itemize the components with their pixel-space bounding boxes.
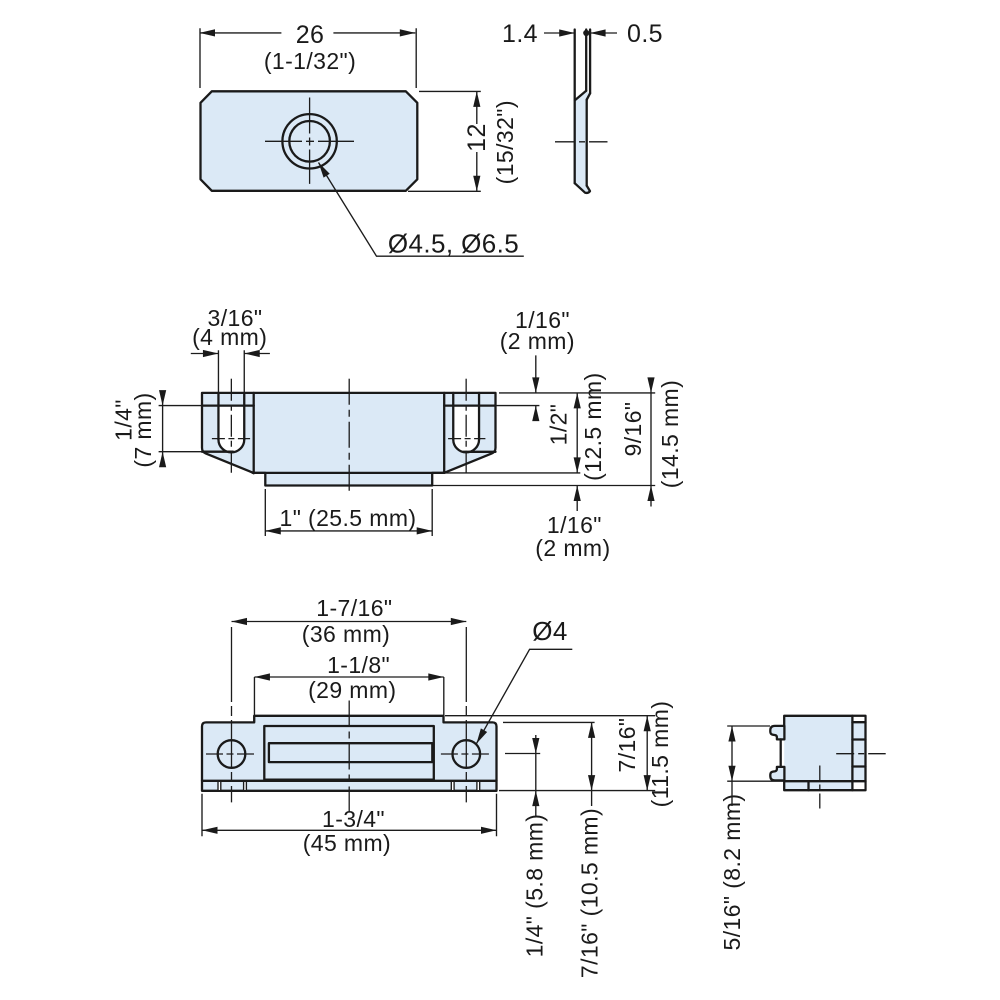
svg-text:(1-1/32"): (1-1/32") [264,48,356,74]
svg-text:5/16" (8.2 mm): 5/16" (8.2 mm) [719,794,745,951]
tab connector edge [780,739,782,767]
hole inner circle Ø4.5 [289,121,330,162]
dim 9/16 line [650,378,652,507]
left slot edge lines [218,393,244,440]
dim 8.2 mm line [731,726,733,806]
svg-text:1-7/16": 1-7/16" [316,595,392,621]
svg-text:(2 mm): (2 mm) [500,328,575,354]
svg-text:(29 mm): (29 mm) [308,677,396,703]
right slot cutout [453,407,479,453]
svg-text:(36 mm): (36 mm) [302,621,390,647]
strip corner cell bottom [854,782,865,789]
left edge line [574,30,576,184]
svg-text:12: 12 [463,123,491,152]
dim 0.5 arrow [590,29,606,36]
svg-text:1-3/4": 1-3/4" [322,806,385,832]
bend line lower [587,93,590,99]
dim 1/2 arrows [574,393,581,409]
dim 1/16 top arrows [532,377,539,393]
foot slit left 1 [219,782,221,790]
middle edge line [585,30,587,91]
svg-text:(4 mm): (4 mm) [192,324,267,350]
dim 36 mm arrows [232,618,248,625]
dim 11.5 mm arrows [644,716,651,732]
svg-text:(2 mm): (2 mm) [535,535,610,561]
dim 45 mm line [202,829,497,831]
profile fill [575,91,590,192]
wing step line left [202,404,254,406]
hole right vertical centerline [465,627,467,802]
central centerline [348,379,350,496]
front face strip [851,716,853,790]
body outline [202,716,497,791]
extension line step right [496,405,540,407]
body outline [784,716,865,790]
dim 9/16 arrows [647,377,654,393]
separation line left [253,393,255,473]
dim 3/16 line right [244,353,270,355]
dim 1 inch line [265,530,432,532]
dim 12 arrows [473,91,480,107]
strip division lines [852,722,865,781]
dim 12 extension lines [408,91,481,191]
right edge line [589,30,591,94]
foot slit right 2 [478,782,480,790]
lower right edge [586,100,588,186]
bottom strip divider [807,781,809,790]
dim 45 mm arrows [202,827,218,834]
horizontal centerline [836,753,886,755]
svg-text:1-1/8": 1-1/8" [327,652,390,678]
magnet housing rect [264,726,434,780]
dim 10.5 mm arrows [588,722,595,738]
foot slit left 2 [244,782,246,790]
svg-text:9/16": 9/16" [620,402,646,457]
top mounting tab [770,726,784,740]
hole left horizontal centerline [206,753,258,755]
left slot cutout [218,407,244,453]
body outline [202,393,496,486]
dim 36 mm line [232,621,467,623]
foot [575,183,590,193]
svg-text:Ø4.5, Ø6.5: Ø4.5, Ø6.5 [388,229,519,259]
plate body [201,91,418,191]
bend line upper [575,91,586,100]
magnet flange top line [253,472,445,474]
hole right horizontal centerline [441,753,492,755]
svg-text:(45 mm): (45 mm) [303,830,391,856]
svg-text:1/4" (5.8 mm): 1/4" (5.8 mm) [522,814,548,958]
svg-text:(14.5 mm): (14.5 mm) [657,380,683,488]
dim 5.8 mm arrows [532,738,539,754]
right slot edge lines [453,393,479,440]
leader arrowhead [315,161,329,178]
dim 29 mm arrows [254,673,270,680]
strip corner cell top [854,717,865,721]
dim 10.5 mm line [591,722,593,806]
dim 29 mm line [254,676,443,678]
svg-text:1/2": 1/2" [545,404,571,446]
svg-text:(15/32"): (15/32") [492,100,518,184]
dim 1/16 bottom line [576,486,578,512]
wing step line right [444,404,495,406]
svg-text:(7 mm): (7 mm) [130,392,156,467]
bottom mounting tab [770,767,784,781]
extension line wing top right [503,721,595,723]
dim 0.5 line [590,32,617,34]
magnet strip lines [269,743,432,762]
dim 12 line [476,91,478,191]
svg-text:1.4: 1.4 [502,20,538,48]
right wing centerline vertical [465,379,467,474]
screw hole right [453,740,481,768]
bottom face line [202,780,497,782]
svg-text:(12.5 mm): (12.5 mm) [580,372,606,480]
dim 8.2 mm arrows [728,726,735,742]
dim 1.4 line [544,32,575,34]
dim 1/2 line [576,393,578,473]
hole outer circle Ø6.5 [282,114,336,168]
extension lines slot width [218,350,244,393]
dim boundary dot [583,30,589,36]
dim 11.5 mm line [646,716,648,791]
bottom strip line [784,780,852,782]
dim 1/4 line [162,391,164,467]
extension line block bottom right [445,472,581,474]
separation line right [443,393,445,473]
dim 3/16 arrow right [244,350,260,357]
dim 1/4 arrows [159,390,166,406]
extension lines left wing dims [159,406,202,452]
right slot arc [453,440,479,453]
wing bottom line right [464,451,496,453]
dim 1/16 bottom arrow [574,486,581,502]
foot slit right 1 [452,782,454,790]
svg-text:1" (25.5 mm): 1" (25.5 mm) [280,505,417,531]
profile centerline [555,141,608,143]
right slot horizontal centerline [448,438,485,440]
hole left vertical centerline [231,627,233,802]
svg-text:(11.5 mm): (11.5 mm) [647,701,673,808]
extension lines 8.2 mm [727,726,784,781]
dim 26 extension lines [200,28,416,88]
hole vertical centerline [309,98,311,184]
hole horizontal centerline [265,140,354,142]
extension lines 29 mm [254,677,443,722]
dim 3/16 arrow left [203,350,219,357]
leader line Ø4 [476,649,572,743]
screw hole left [218,740,246,768]
dim 1.4 arrow [559,29,575,36]
left wing centerline vertical [230,379,232,474]
central vertical centerline [348,701,350,813]
dim 5.8 mm line [535,735,537,816]
svg-text:7/16" (10.5 mm): 7/16" (10.5 mm) [577,808,603,978]
extension line hole center right [505,753,540,755]
extension line body top right [499,392,655,394]
extension line flange bottom right [432,485,655,487]
dim 3/16 line left [191,353,219,355]
svg-text:7/16": 7/16" [614,718,640,773]
svg-text:0.5: 0.5 [627,20,663,48]
left slot arc [218,440,244,453]
leader Ø4 arrowhead [473,728,487,745]
svg-text:Ø4: Ø4 [532,616,567,646]
wing bottom line left [202,451,233,453]
extension line bottom right [499,790,655,792]
leader line to hole [319,163,524,257]
dim 1 inch arrows [265,527,281,534]
extension line housing top right [445,715,655,717]
vertical centerline [819,766,821,809]
extension lines 45 mm [202,794,497,837]
dim 1/16 top line [535,355,537,420]
dim 26 arrows [200,29,216,36]
left slot horizontal centerline [212,438,250,440]
svg-text:26: 26 [296,21,325,49]
dim 26 line [200,32,416,34]
extension lines flange width [265,489,432,536]
